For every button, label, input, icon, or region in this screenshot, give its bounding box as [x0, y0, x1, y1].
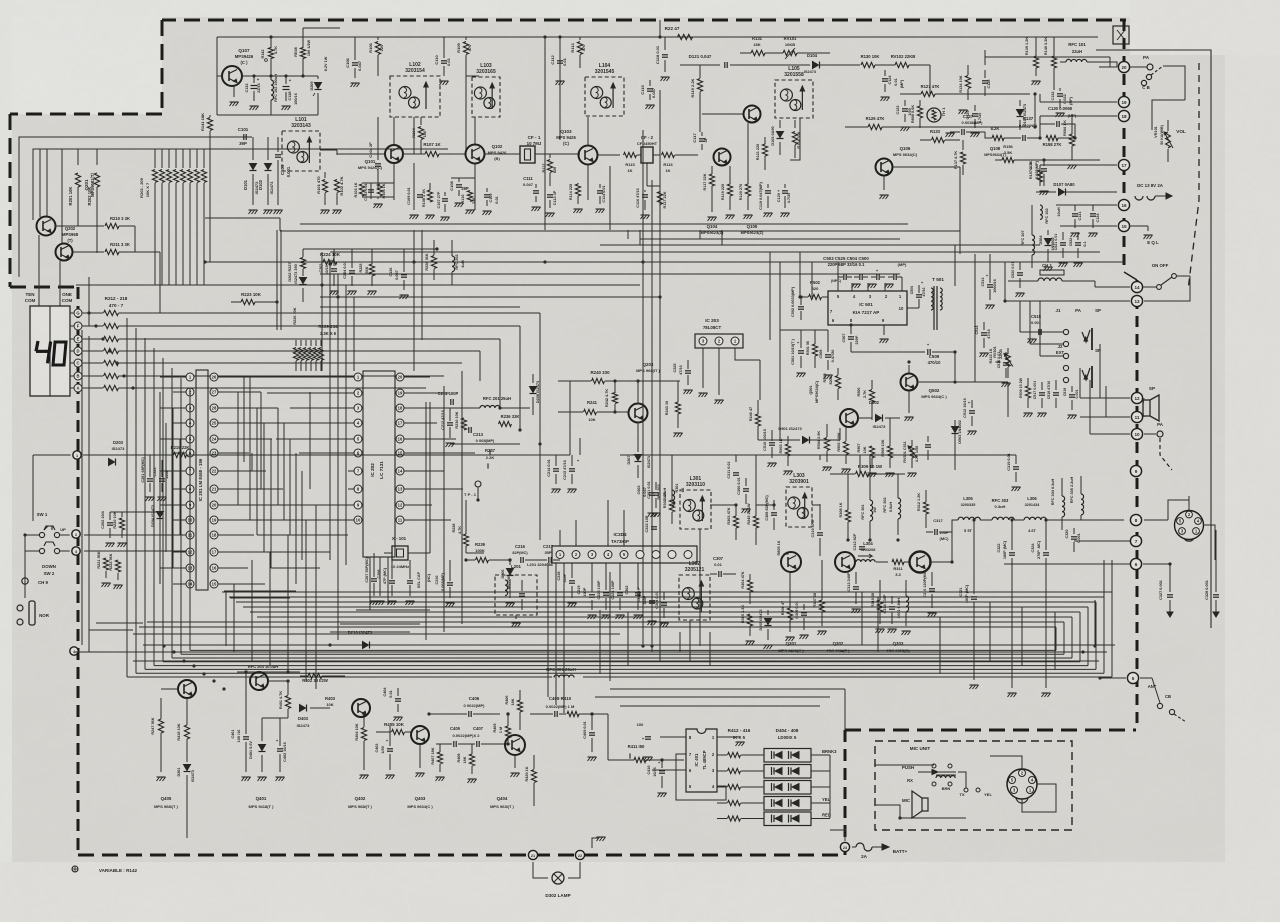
resistor R506 2.7K	[857, 380, 875, 420]
capacitor C217 35P	[540, 544, 560, 563]
wire squelch link	[838, 362, 909, 418]
wire drop mesh 3	[461, 371, 463, 624]
capacitor C504	[868, 268, 886, 288]
wire mic conn top	[990, 756, 1022, 769]
capacitor C220 100P	[597, 563, 611, 619]
wire segment C run	[119, 362, 463, 364]
IC U202 pin 14	[396, 467, 410, 475]
wire mid tx vert	[820, 460, 830, 504]
resistor R247 56K	[151, 689, 178, 781]
wire top-left bus	[33, 149, 448, 220]
diode D203	[84, 440, 125, 466]
wire loop right edge 6	[1071, 617, 1073, 658]
IC U202 pin 10	[348, 516, 362, 524]
wire junction	[658, 295, 661, 298]
capacitor C304 0.01	[655, 591, 669, 627]
diode D403	[288, 660, 330, 728]
capacitor C123 1/50	[896, 100, 912, 131]
edge connector 17	[1118, 159, 1129, 170]
wire drop mesh 2	[443, 386, 445, 632]
edge connector 8	[1130, 514, 1141, 525]
wire junction	[203, 260, 206, 263]
wire segment A run	[119, 387, 427, 389]
wire top right bus2	[985, 50, 1110, 67]
wire mesh mid horiz 3	[330, 631, 410, 633]
resistor R119 2.2K	[690, 65, 703, 120]
capacitor C211 100P	[430, 391, 459, 405]
wire right bundle v8	[1094, 600, 1096, 646]
resistor R203 ladder	[152, 149, 157, 285]
LED array row 3	[764, 781, 811, 795]
wire	[740, 52, 830, 54]
IC U204 pin 8	[668, 551, 676, 559]
shield box top	[1113, 26, 1129, 44]
resistor R414 1K	[717, 784, 764, 789]
resistor R120 270	[739, 123, 753, 219]
diode D106	[1017, 100, 1028, 130]
PCB border left lower vertical	[77, 287, 80, 855]
capacitor C222 10P	[645, 515, 657, 540]
wire mesh h g	[230, 597, 290, 599]
wire loop left edge 5	[162, 358, 164, 662]
wire pll top row	[303, 247, 439, 250]
background top margin strip	[0, 0, 1280, 17]
transformer L101	[282, 117, 320, 171]
wire receiver det	[770, 53, 930, 74]
wire audio in	[758, 426, 826, 444]
resistor R507 10K	[857, 430, 877, 477]
ceramic filter CF-2	[597, 135, 698, 173]
resistor R306 47	[781, 572, 795, 641]
wire Q401	[246, 672, 290, 734]
display pin E	[70, 335, 103, 343]
transistor Q104	[714, 149, 731, 166]
capacitor C328	[1205, 530, 1219, 617]
wire drop mesh 4	[537, 444, 545, 646]
resistor R219 22K	[83, 445, 205, 458]
capacitor C136 0.047	[389, 249, 409, 299]
IC U202 pin 12	[396, 501, 410, 509]
wire loop top 7	[264, 621, 1064, 623]
label BRNK3	[822, 749, 837, 754]
IC U401 pin 7L	[689, 752, 692, 757]
wire base Q101	[337, 153, 385, 155]
wire conn 17 row	[1040, 165, 1117, 186]
label SEL CAP	[417, 571, 431, 588]
wire um1	[628, 230, 640, 245]
wire mid rail 4	[205, 261, 1124, 263]
zener D209 8.2V	[310, 56, 328, 115]
jack PA top	[1130, 55, 1153, 70]
resistor R21x segment B	[104, 373, 119, 378]
jack J2	[1063, 365, 1092, 388]
wire junction	[868, 538, 871, 541]
transistor Q103	[556, 129, 597, 165]
wire mesh v c	[256, 408, 258, 535]
wire	[393, 117, 395, 145]
capacitor C210	[435, 560, 455, 607]
wire seg bus drops	[426, 313, 540, 444]
wire mesh verts mid	[244, 377, 290, 535]
wire junction	[641, 260, 644, 263]
resistor R302 120	[663, 490, 675, 524]
IC U202 pin 20	[396, 373, 410, 381]
jack J1	[1063, 328, 1092, 359]
wire conn8 to mic socket	[1144, 519, 1168, 521]
resistor R225 56K	[359, 249, 377, 295]
label caps row C503 C525 C504 C500	[823, 256, 907, 267]
IC U203 78L08CT	[695, 318, 743, 348]
wire bottom rail 3	[133, 660, 1099, 662]
resistor R21x segment A	[104, 385, 119, 390]
capacitor C506	[910, 280, 926, 308]
wire rail upper c	[133, 633, 620, 635]
wire drop mesh 11	[680, 620, 690, 661]
label PUSH	[902, 765, 938, 775]
wire loop right edge 8	[1055, 627, 1057, 650]
PCB border lower-right horizontal	[845, 729, 1136, 732]
PCB border top edge	[162, 19, 1126, 22]
IC U204 pin 6	[636, 551, 644, 559]
inductor L303	[786, 473, 812, 527]
resistor R21x segment C	[104, 360, 119, 365]
capacitor C106 0.047	[345, 37, 362, 87]
wire sw bus	[84, 512, 186, 551]
thermistor TH-1	[927, 107, 946, 122]
IC U202 body	[363, 371, 395, 557]
label variable R142	[72, 866, 138, 873]
inductor RFC203	[657, 480, 675, 546]
LED array row 1	[764, 749, 811, 763]
wire loop bottom 5	[163, 661, 1080, 663]
capacitor C508 0.47/50	[819, 340, 835, 379]
transformer L105	[775, 66, 813, 118]
wire segment D run	[119, 350, 481, 352]
label Q104 Q105	[701, 224, 764, 235]
ground Q502	[905, 391, 914, 421]
capacitor C316 120P	[923, 570, 937, 617]
resistor R117b 22K	[703, 166, 715, 204]
capacitor C215 47/16	[563, 455, 580, 493]
inductor RFC101 22uH	[1036, 42, 1118, 67]
wire junction	[131, 386, 134, 389]
capacitor C514 47/16	[974, 322, 991, 357]
wire junction	[336, 295, 339, 298]
resistor R141 18K	[200, 113, 213, 262]
label RED	[822, 813, 831, 818]
resistor R415 1K	[717, 800, 764, 805]
capacitor C309 0.01	[795, 601, 809, 639]
capacitor C410 10/16	[647, 760, 667, 797]
edge connector 7	[1130, 535, 1141, 546]
inductor RFC305 2.2uH	[1070, 476, 1084, 520]
wire loop top 6	[257, 616, 1072, 618]
capacitor C502 0.0033MP	[791, 286, 804, 320]
wire front panel	[1163, 66, 1185, 100]
resistor R604 1K	[1063, 114, 1077, 169]
switch ON OFF	[1143, 263, 1190, 301]
PCB border left upper vertical	[9, 114, 12, 287]
LED array row 5	[764, 812, 811, 826]
wire junction	[849, 323, 852, 326]
mic socket	[1175, 511, 1204, 542]
resistor R206 ladder	[173, 149, 178, 285]
PCB border right connector jog	[1124, 272, 1137, 280]
diode D504 1N4002	[1039, 230, 1055, 271]
wire drop mesh 8	[599, 610, 601, 674]
wire junction	[953, 350, 956, 353]
wire mesh mid horiz 2	[340, 623, 420, 625]
IC U201 pin 6	[186, 449, 194, 457]
resistor R222 56K	[109, 553, 123, 589]
wire center lower h1	[610, 688, 845, 690]
IC U202 pin 2	[348, 389, 362, 397]
wire top supply bus	[217, 36, 1098, 38]
wire segment B run	[119, 375, 445, 377]
wire rail upper b	[139, 626, 640, 628]
transformer L102	[390, 62, 440, 117]
capacitor C129 4.7/35	[966, 105, 982, 137]
capacitor C113 3P	[546, 190, 558, 217]
wire conn10	[1090, 422, 1164, 437]
capacitor C500	[885, 274, 903, 288]
resistor R139 1.2K	[1025, 37, 1041, 85]
capacitor C101	[237, 127, 252, 146]
resistor R241 10K	[558, 400, 629, 422]
wire loop right edge 1	[1111, 592, 1113, 677]
resistor R243 10	[665, 381, 683, 437]
resistor R226 10K	[293, 307, 297, 324]
capacitor C501 10/10T	[791, 330, 806, 377]
IC U202 pin 16	[396, 435, 410, 443]
capacitor C307 0.01	[710, 556, 736, 577]
resistor R231	[303, 340, 308, 371]
resistor R303 47K	[727, 505, 739, 540]
capacitor C131 C133	[1071, 205, 1101, 237]
diode D204	[151, 505, 164, 535]
diode D121 cap	[680, 54, 770, 68]
wire L30x bottom	[750, 574, 768, 610]
wire top right long links	[920, 37, 1054, 140]
resistor R21x segment D	[104, 348, 119, 353]
resistor R204 ladder	[159, 149, 164, 285]
wire loop bottom 3	[145, 668, 1096, 670]
wire pll mid	[430, 402, 460, 553]
wire loop bottom 7	[181, 653, 1064, 655]
resistor R114 220	[569, 183, 583, 213]
capacitor C405 C407	[429, 726, 510, 747]
wire junction	[87, 311, 90, 314]
wire mid verticals	[322, 252, 354, 640]
wire segment F run	[119, 325, 521, 327]
wire loop left edge 2	[135, 328, 137, 673]
wire left bundle v1	[81, 330, 83, 645]
wire nest v r2	[877, 597, 879, 652]
wire Q104 labels wire	[700, 230, 722, 245]
capacitor C313 240P	[847, 572, 861, 613]
wire junction	[182, 659, 185, 662]
wire right mid column	[984, 205, 1040, 356]
ground near 22	[592, 837, 606, 848]
resistor R501 56	[806, 330, 818, 368]
wire Q404 em	[511, 755, 520, 777]
capacitor C132 0.022(NP)	[1051, 88, 1073, 117]
wire loop left edge 8	[189, 388, 191, 650]
wire	[1033, 92, 1036, 128]
pot RV501	[903, 436, 931, 477]
IC U204 pin 1	[556, 551, 564, 559]
inductor RFC201 25uH	[460, 396, 530, 408]
LED array row 4	[764, 797, 811, 811]
transistor Q101	[358, 145, 403, 170]
transistor Q501	[809, 380, 858, 427]
label MIC	[902, 798, 911, 803]
switch NOR	[17, 601, 50, 625]
wire	[77, 149, 79, 165]
transistor Q402	[348, 699, 372, 809]
diode D208	[530, 374, 541, 415]
IC U202 pin 13	[396, 485, 410, 493]
inductor RFC102 100uH	[271, 74, 278, 115]
wire conn5 link	[1098, 661, 1126, 680]
wire bott left border links	[139, 645, 141, 652]
capacitor C201 C223	[141, 455, 169, 501]
resistor R102 4.7K	[334, 176, 344, 205]
wire right bundle v10	[1111, 560, 1113, 592]
wire conn strip links top	[1040, 94, 1117, 127]
resistor R148 100 1/2W	[294, 28, 311, 76]
test point TP-1	[464, 481, 481, 502]
resistor R117 22K	[657, 186, 667, 215]
capacitor C317 100P	[926, 518, 952, 541]
wire audio bias	[780, 274, 820, 330]
resistor R134 10K	[959, 65, 971, 100]
wire	[96, 149, 98, 165]
wire loop left edge 1	[126, 318, 128, 677]
wire jack to conn12	[1092, 344, 1100, 398]
fuse F1 2A	[852, 843, 908, 859]
wire mid right verticals	[960, 180, 1005, 382]
capacitor C302 100P	[625, 563, 643, 619]
resistor R504 3.9K	[817, 424, 832, 471]
background right margin area	[1225, 0, 1280, 922]
wire loop left edge 7	[180, 378, 182, 654]
wire top-left outer	[19, 137, 237, 277]
capacitor C133 22/16	[245, 76, 261, 110]
IC U201 pin 1	[186, 373, 194, 381]
edge connector 6	[1130, 558, 1141, 569]
capacitor C119 0.047(MP)	[759, 181, 773, 217]
wire mesh h a	[238, 504, 348, 506]
IC U201 pin 24	[210, 435, 218, 443]
edge connector 18	[1118, 110, 1129, 121]
resistor R242 4.7K	[605, 379, 618, 413]
diode D503	[952, 420, 963, 450]
capacitor C324 270P	[1031, 520, 1051, 697]
resistor R157	[1029, 161, 1043, 182]
IC U202 pin 11	[396, 516, 410, 524]
resistor R152 8.2K	[985, 126, 1016, 141]
wire IC203 pins	[688, 348, 760, 404]
wire junction	[172, 650, 175, 653]
inductor R301 1K	[675, 483, 685, 492]
wire rail drop 2	[652, 455, 870, 484]
wire nest v r5	[1054, 612, 1056, 670]
IC U201 pin 22	[210, 467, 218, 475]
mic speaker symbol	[912, 791, 928, 818]
label MIC UNIT	[910, 746, 931, 751]
inductor RFC301	[861, 474, 877, 540]
IC U201 body	[196, 370, 208, 590]
resistor R112 820	[542, 154, 557, 186]
wire IF vertical long	[610, 230, 618, 245]
wire mid rail 1	[640, 238, 900, 240]
label J1 PA SP	[1056, 308, 1101, 313]
wire audio path	[758, 274, 840, 440]
wire junction	[538, 442, 541, 445]
resistor R245 22 1W	[747, 503, 759, 545]
wire Q502 col	[918, 380, 975, 383]
wire junction	[108, 349, 111, 352]
wire	[658, 20, 661, 39]
resistor R138 27K	[1038, 135, 1076, 147]
wire segment G run	[119, 312, 541, 314]
diode D103 0A90	[771, 120, 784, 155]
resistor R407 18K	[431, 744, 445, 781]
capacitor C203 10/16	[319, 249, 339, 295]
resistor R230 10K	[455, 408, 467, 440]
resistor R106 220	[368, 37, 384, 76]
capacitor C120 4.7/35	[777, 184, 791, 217]
resistor R233	[313, 340, 318, 371]
wire rx if	[675, 155, 730, 172]
wire mic unit inner	[875, 760, 990, 820]
wire	[413, 117, 415, 154]
wire mic unit bus	[958, 772, 978, 818]
wire bottom rail 2	[75, 651, 1107, 653]
wire IC202 left mesh	[244, 377, 348, 453]
wire rail upper a	[147, 621, 660, 623]
resistor R131 18K	[751, 36, 765, 56]
resistor R305 3.3K	[741, 604, 755, 645]
wire junction	[590, 712, 593, 715]
IC U202 pin 5	[348, 435, 362, 443]
IC U201 pin 7	[186, 467, 194, 475]
wire center lower h3	[620, 705, 820, 707]
IC U201 pin 2	[186, 388, 194, 396]
switch SW1 UP	[37, 512, 66, 538]
IC U202 pin 17	[396, 419, 410, 427]
capacitor C301 0.01	[647, 481, 661, 517]
switch CB	[1141, 66, 1163, 90]
speaker SP	[1143, 386, 1159, 421]
wire mesh mid horiz 1	[356, 609, 430, 611]
capacitor C409 0.01	[583, 712, 597, 761]
wire conn16	[1056, 204, 1117, 206]
capacitor C219 100P	[577, 563, 597, 619]
wire conn7 row	[1074, 540, 1130, 542]
wire conn1 link	[33, 455, 71, 521]
switch SW2 DOWN	[39, 542, 59, 576]
wire conn20 line	[1099, 66, 1130, 68]
wire junction	[212, 679, 215, 682]
wire Q403 em	[416, 744, 425, 777]
wire junction	[1010, 518, 1013, 521]
inductor L601 6.8uH	[897, 580, 911, 635]
wire LED feedback	[676, 754, 726, 800]
background bottom margin strip	[0, 862, 1280, 922]
resistor R502 820	[800, 280, 828, 300]
